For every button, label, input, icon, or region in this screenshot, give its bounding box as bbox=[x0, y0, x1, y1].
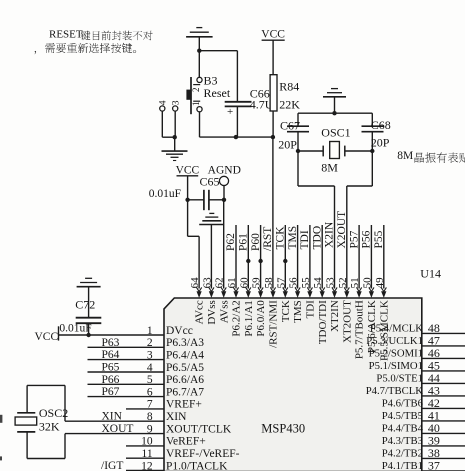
wire bbox=[297, 113, 299, 126]
svg-text:TCK: TCK bbox=[280, 300, 292, 322]
svg-text:63: 63 bbox=[201, 277, 213, 289]
pin 47 wire bbox=[422, 345, 465, 347]
svg-text:P6.1/A1: P6.1/A1 bbox=[243, 300, 255, 336]
note: 8M crystal annotation bbox=[397, 150, 413, 162]
svg-text:P5.0/STE1: P5.0/STE1 bbox=[376, 373, 423, 385]
svg-text:P6.6/A6: P6.6/A6 bbox=[166, 374, 204, 386]
svg-text:OSC2: OSC2 bbox=[39, 406, 68, 420]
pin 43 wire bbox=[422, 395, 465, 397]
wire bbox=[174, 137, 176, 151]
ground (reset pull rail) bbox=[186, 36, 213, 38]
pin 54 arrow bbox=[320, 287, 325, 291]
svg-text:4: 4 bbox=[147, 362, 153, 374]
svg-text:2: 2 bbox=[147, 337, 153, 349]
svg-text:53: 53 bbox=[325, 277, 337, 289]
ground (OSC1) bbox=[323, 96, 346, 98]
wire bbox=[161, 111, 163, 137]
junction bbox=[222, 198, 226, 202]
pin 49 arrow bbox=[381, 287, 386, 291]
MCU U14 body bbox=[164, 298, 422, 471]
junction bbox=[283, 259, 287, 263]
svg-text:7: 7 bbox=[147, 399, 153, 411]
capacitor C68 bbox=[362, 126, 384, 151]
wire XT2OUT net bbox=[371, 151, 373, 186]
svg-text:XT2IN: XT2IN bbox=[329, 300, 341, 332]
svg-text:P6.3/A3: P6.3/A3 bbox=[166, 337, 204, 349]
crystal OSC1 bbox=[298, 142, 372, 159]
pin 2 wire bbox=[88, 346, 165, 348]
junction bbox=[185, 198, 189, 202]
svg-text:C68: C68 bbox=[371, 118, 391, 132]
note cjk right bbox=[415, 152, 465, 162]
wire net P60 bbox=[260, 225, 262, 289]
svg-text:P6.2/A2: P6.2/A2 bbox=[231, 300, 243, 336]
svg-text:P56: P56 bbox=[361, 230, 373, 248]
junction bbox=[296, 149, 300, 153]
wire net TMS bbox=[297, 225, 299, 289]
svg-text:P4.2/TB2: P4.2/TB2 bbox=[382, 448, 423, 460]
svg-text:32K: 32K bbox=[39, 419, 60, 433]
pin 5 wire bbox=[88, 383, 165, 385]
svg-text:0.01uF: 0.01uF bbox=[149, 188, 181, 200]
note: reset annotation bbox=[49, 28, 83, 40]
svg-text:3: 3 bbox=[171, 100, 181, 105]
svg-text:37: 37 bbox=[428, 458, 440, 471]
wire net P57 bbox=[358, 225, 360, 289]
pin 61 arrow bbox=[233, 287, 238, 291]
junction bbox=[258, 259, 262, 263]
pin 52 arrow bbox=[344, 287, 349, 291]
svg-text:P5.1/SIMO1: P5.1/SIMO1 bbox=[369, 360, 423, 372]
svg-text:P65: P65 bbox=[102, 362, 120, 374]
svg-text:P55: P55 bbox=[373, 230, 385, 248]
wire net P61 bbox=[247, 225, 249, 289]
svg-text:20P: 20P bbox=[278, 137, 297, 151]
svg-text:R84: R84 bbox=[279, 80, 299, 94]
wire /RST net bbox=[272, 137, 274, 288]
svg-text:XOUT/TCLK: XOUT/TCLK bbox=[166, 423, 232, 435]
junction bbox=[197, 49, 201, 53]
wire bbox=[236, 51, 238, 102]
junction bbox=[234, 135, 238, 139]
svg-text:XIN: XIN bbox=[166, 411, 187, 423]
svg-text:DVss: DVss bbox=[206, 300, 218, 324]
svg-text:TMS: TMS bbox=[292, 300, 304, 323]
pin 3 wire bbox=[88, 359, 165, 361]
svg-text:P62: P62 bbox=[225, 233, 237, 251]
power VCC (left) bbox=[35, 326, 59, 343]
pin 40 wire bbox=[422, 432, 465, 434]
power VCC (top) bbox=[261, 29, 285, 75]
crystal OSC2 bbox=[15, 385, 65, 458]
pin 39 wire bbox=[422, 445, 465, 447]
wire bbox=[334, 97, 336, 113]
svg-text:VeREF+: VeREF+ bbox=[166, 436, 206, 448]
pin 46 wire bbox=[422, 357, 465, 359]
svg-text:P5.7/TBoutH: P5.7/TBoutH bbox=[354, 300, 366, 359]
pin 4 wire bbox=[88, 371, 165, 373]
svg-text:XT2OUT: XT2OUT bbox=[341, 300, 353, 343]
svg-text:TDO: TDO bbox=[311, 226, 323, 250]
capacitor C72 bbox=[76, 287, 102, 335]
wire bbox=[199, 112, 201, 137]
svg-text:50: 50 bbox=[361, 277, 373, 289]
wire net TCK bbox=[284, 225, 286, 289]
pin 7 wire bbox=[126, 408, 164, 410]
svg-text:P5.2/SOMI1: P5.2/SOMI1 bbox=[369, 348, 423, 360]
svg-text:10: 10 bbox=[141, 436, 153, 448]
wire bbox=[198, 51, 200, 78]
wire bbox=[162, 136, 175, 138]
pin 50 arrow bbox=[369, 287, 374, 291]
svg-text:P4.5/TB5: P4.5/TB5 bbox=[382, 410, 423, 422]
svg-text:/RST: /RST bbox=[262, 227, 274, 251]
svg-text:P4.7/TBCLK: P4.7/TBCLK bbox=[366, 385, 424, 397]
note cjk line2 bbox=[35, 43, 137, 54]
svg-text:2: 2 bbox=[191, 88, 201, 93]
wire bbox=[272, 111, 274, 137]
svg-text:OSC1: OSC1 bbox=[321, 125, 350, 139]
svg-text:P57: P57 bbox=[348, 230, 360, 248]
pin 42 wire bbox=[422, 407, 465, 409]
pin 51 arrow bbox=[357, 287, 362, 291]
svg-text:TDI: TDI bbox=[305, 300, 317, 319]
pin 41 wire bbox=[422, 420, 465, 422]
svg-text:51: 51 bbox=[349, 277, 361, 288]
svg-text:X2IN: X2IN bbox=[324, 221, 336, 248]
capacitor C66 bbox=[225, 102, 252, 137]
svg-text:AVcc: AVcc bbox=[194, 300, 206, 324]
svg-text:8M: 8M bbox=[397, 150, 413, 162]
pin 10 wire bbox=[126, 445, 164, 447]
pin 38 wire bbox=[422, 457, 465, 459]
svg-text:TDO/TDI: TDO/TDI bbox=[317, 300, 329, 344]
pin 37 wire bbox=[422, 470, 465, 471]
svg-text:TCK: TCK bbox=[275, 226, 287, 250]
wire AVcc jog bbox=[187, 200, 189, 237]
svg-text:P66: P66 bbox=[102, 374, 120, 386]
svg-text:Reset: Reset bbox=[204, 86, 231, 100]
svg-text:22K: 22K bbox=[279, 97, 300, 111]
ground (C72) bbox=[77, 286, 101, 288]
svg-text:P4.4/TB4: P4.4/TB4 bbox=[382, 423, 424, 435]
junction bbox=[86, 333, 90, 337]
svg-text:XOUT: XOUT bbox=[102, 423, 134, 435]
wire (osc top rail) bbox=[298, 112, 372, 114]
svg-text:P6.7/A7: P6.7/A7 bbox=[166, 386, 204, 398]
svg-text:P4.6/TB6: P4.6/TB6 bbox=[382, 398, 424, 410]
pin 1 wire bbox=[59, 334, 165, 336]
svg-text:DVcc: DVcc bbox=[166, 325, 193, 337]
svg-text:3: 3 bbox=[147, 349, 153, 361]
wire AVss bbox=[223, 200, 225, 289]
svg-text:61: 61 bbox=[226, 277, 238, 288]
pin 12 wire bbox=[126, 470, 164, 471]
pin 58 arrow bbox=[270, 287, 275, 291]
svg-text:P64: P64 bbox=[102, 349, 120, 361]
svg-text:TDI: TDI bbox=[299, 230, 311, 249]
svg-text:56: 56 bbox=[288, 277, 300, 289]
svg-text:/IGT: /IGT bbox=[101, 460, 123, 471]
pin 64 arrow bbox=[197, 287, 202, 291]
wire (reset rail) bbox=[200, 136, 273, 138]
svg-text:VCC: VCC bbox=[35, 331, 59, 343]
ground (button frame) bbox=[162, 150, 188, 152]
svg-text:AVss: AVss bbox=[218, 300, 230, 323]
pin 45 wire bbox=[422, 370, 465, 372]
pin 6 wire bbox=[88, 396, 165, 398]
svg-text:20P: 20P bbox=[371, 135, 390, 149]
wire DVss bbox=[210, 225, 212, 289]
svg-text:59: 59 bbox=[251, 277, 263, 289]
svg-text:+: + bbox=[227, 106, 233, 118]
pin 57 arrow bbox=[283, 287, 288, 291]
wire XT2IN net bbox=[297, 151, 299, 186]
capacitor C65 bbox=[188, 190, 224, 210]
pin 55 arrow bbox=[307, 287, 312, 291]
svg-text:57: 57 bbox=[275, 277, 287, 289]
svg-text:8M: 8M bbox=[321, 161, 338, 175]
svg-text:P60: P60 bbox=[250, 233, 262, 251]
junction bbox=[332, 111, 336, 115]
svg-text:1: 1 bbox=[147, 325, 153, 337]
svg-text:U14: U14 bbox=[420, 267, 441, 281]
pin 11 wire bbox=[126, 457, 164, 459]
pin 63 arrow bbox=[209, 287, 214, 291]
capacitor C67 bbox=[287, 126, 309, 151]
junction bbox=[271, 135, 275, 139]
note cjk line1 bbox=[81, 31, 153, 41]
svg-text:52: 52 bbox=[337, 277, 349, 288]
svg-text:4: 4 bbox=[159, 100, 169, 105]
pin 53 arrow bbox=[332, 287, 337, 291]
svg-text:P63: P63 bbox=[102, 337, 120, 349]
wire net P55 bbox=[383, 225, 385, 289]
svg-text:XIN: XIN bbox=[102, 411, 123, 423]
svg-text:12: 12 bbox=[141, 460, 153, 471]
svg-text:54: 54 bbox=[312, 277, 324, 289]
connector pin 3 bbox=[173, 106, 178, 111]
pin 56 arrow bbox=[295, 287, 300, 291]
pin 60 arrow bbox=[246, 287, 251, 291]
svg-text:C67: C67 bbox=[280, 118, 300, 132]
svg-text:C72: C72 bbox=[75, 297, 95, 311]
svg-text:P6.0/A0: P6.0/A0 bbox=[255, 300, 267, 337]
svg-text:/RST/NMI: /RST/NMI bbox=[268, 300, 280, 348]
svg-text:MSP430: MSP430 bbox=[261, 421, 305, 435]
wire bbox=[199, 50, 237, 52]
pushbutton B3 bbox=[186, 77, 202, 114]
terminal AGND bbox=[208, 165, 241, 200]
ground (AGND/AVss) bbox=[202, 220, 221, 222]
svg-text:VREF-/VeREF-: VREF-/VeREF- bbox=[166, 448, 240, 460]
svg-text:TMS: TMS bbox=[287, 226, 299, 250]
pin 62 arrow bbox=[221, 287, 226, 291]
svg-text:X2OUT: X2OUT bbox=[336, 211, 348, 249]
power VCC (mid) bbox=[176, 165, 200, 200]
pin 8 wire bbox=[65, 420, 164, 422]
svg-text:P1.0/TACLK: P1.0/TACLK bbox=[166, 460, 228, 471]
svg-text:58: 58 bbox=[263, 277, 275, 289]
svg-text:64: 64 bbox=[189, 277, 201, 289]
wire net P62 bbox=[235, 225, 237, 289]
svg-text:P61: P61 bbox=[238, 233, 250, 251]
svg-text:P5.3/UCLK1: P5.3/UCLK1 bbox=[366, 335, 423, 347]
wire bbox=[371, 113, 373, 126]
pin 44 wire bbox=[422, 382, 465, 384]
svg-text:62: 62 bbox=[214, 277, 226, 288]
svg-text:49: 49 bbox=[374, 277, 386, 289]
svg-text:P4.1/TB1: P4.1/TB1 bbox=[382, 460, 423, 471]
junction bbox=[173, 135, 177, 139]
pin 9 wire bbox=[65, 433, 164, 435]
resistor R84 bbox=[270, 75, 277, 111]
junction bbox=[246, 259, 250, 263]
svg-text:C65: C65 bbox=[200, 174, 220, 188]
edge fragment left bbox=[0, 415, 2, 423]
svg-text:P67: P67 bbox=[102, 386, 120, 398]
svg-text:60: 60 bbox=[238, 277, 250, 289]
svg-text:6: 6 bbox=[147, 386, 153, 398]
wire net P56 bbox=[370, 225, 372, 289]
svg-text:P6.5/A5: P6.5/A5 bbox=[166, 362, 204, 374]
connector pin 4 bbox=[160, 106, 165, 111]
wire (ground bar) bbox=[199, 224, 224, 226]
svg-text:RESET: RESET bbox=[49, 28, 83, 40]
svg-text:8: 8 bbox=[147, 411, 153, 423]
wire bbox=[198, 37, 200, 51]
svg-text:VCC: VCC bbox=[261, 29, 285, 41]
svg-text:VCC: VCC bbox=[176, 165, 200, 177]
svg-text:P6.4/A4: P6.4/A4 bbox=[166, 349, 204, 361]
wire bbox=[174, 111, 176, 137]
svg-text:1: 1 bbox=[191, 102, 201, 107]
svg-text:5: 5 bbox=[147, 374, 153, 386]
pin 59 arrow bbox=[258, 287, 263, 291]
svg-text:P5.4/MCLK: P5.4/MCLK bbox=[370, 323, 423, 335]
junction bbox=[370, 149, 374, 153]
pin 48 wire bbox=[422, 332, 465, 334]
svg-text:9: 9 bbox=[147, 423, 153, 435]
svg-text:VREF+: VREF+ bbox=[166, 399, 202, 411]
wire net TDI bbox=[309, 225, 311, 289]
svg-text:11: 11 bbox=[142, 448, 153, 460]
svg-text:P4.3/TB3: P4.3/TB3 bbox=[382, 435, 423, 447]
svg-text:55: 55 bbox=[300, 277, 312, 289]
wire net TDO bbox=[321, 225, 323, 289]
